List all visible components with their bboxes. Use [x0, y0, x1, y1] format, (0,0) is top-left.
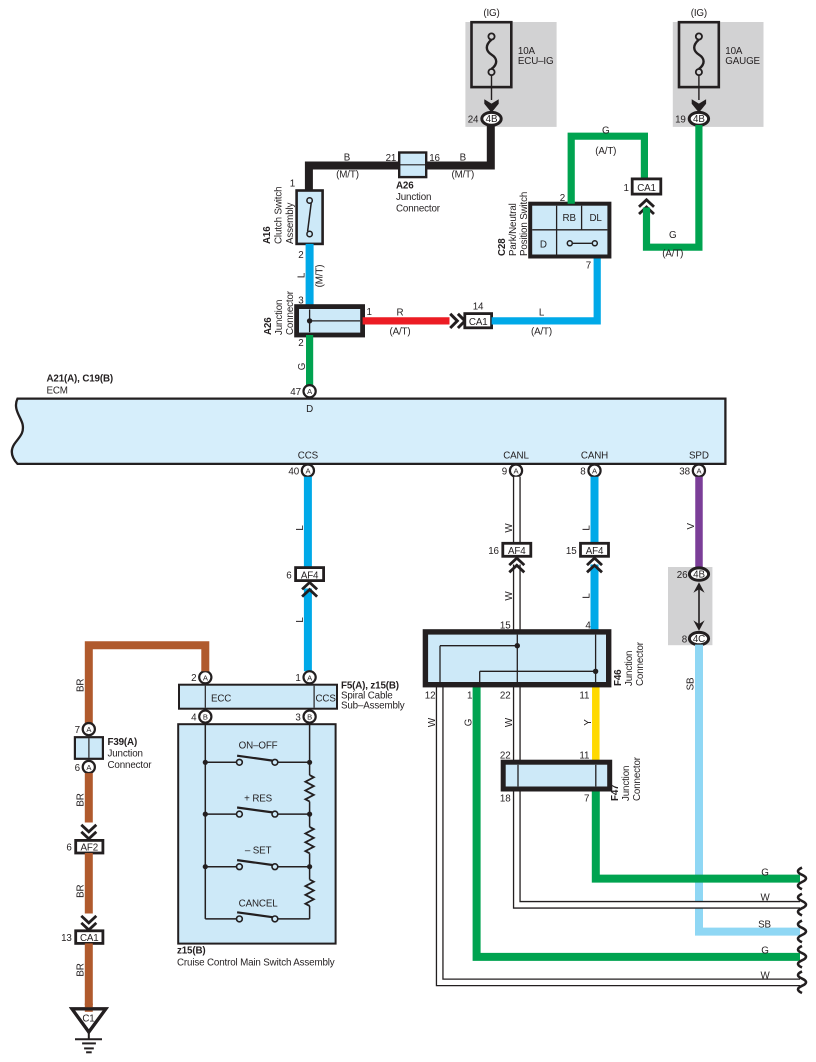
svg-text:A26: A26: [396, 181, 414, 192]
svg-text:4: 4: [191, 713, 197, 724]
svg-text:8: 8: [580, 466, 586, 477]
ground C1: [72, 1004, 106, 1053]
wire W white CANL from ECM pin 9 to F46 pin 15: [500, 477, 517, 632]
wire Y yellow from F46 pin 11 to F47 pin 11: [583, 685, 596, 763]
svg-text:A26: A26: [263, 317, 274, 335]
svg-text:L: L: [297, 272, 308, 278]
resistor R1: [305, 775, 313, 801]
brace end of wire SB: [798, 921, 806, 943]
svg-text:R: R: [397, 308, 404, 319]
pin 8 (A) of ECM: [580, 465, 600, 478]
svg-text:1: 1: [467, 691, 472, 702]
wire L (A/T) blue from CA1 to C28 pin 7: [492, 257, 598, 338]
svg-text:4B: 4B: [693, 569, 705, 580]
connector AF2 pin 6: [66, 840, 103, 853]
svg-text:CA1: CA1: [637, 183, 656, 194]
svg-text:W: W: [760, 971, 770, 982]
svg-text:Assembly: Assembly: [285, 202, 296, 244]
ECM A21(A) C19(B): [12, 374, 726, 464]
connector AF4 pin 15: [566, 543, 609, 572]
svg-text:B: B: [460, 153, 467, 164]
svg-text:Park/Neutral: Park/Neutral: [508, 203, 519, 256]
svg-text:3: 3: [295, 713, 301, 724]
svg-text:z15(B): z15(B): [177, 946, 206, 957]
svg-text:DL: DL: [589, 213, 602, 224]
svg-text:21: 21: [386, 153, 397, 164]
svg-text:26: 26: [677, 570, 688, 581]
pin 7 (A) of F39: [75, 723, 95, 736]
svg-text:(A/T): (A/T): [389, 327, 410, 338]
svg-text:D: D: [306, 404, 313, 415]
svg-text:F39(A): F39(A): [108, 737, 138, 748]
svg-text:(M/T): (M/T): [451, 169, 474, 180]
wire BR brown from F39 to AF2: [76, 773, 97, 839]
svg-text:AF4: AF4: [508, 546, 526, 557]
pin 38 (A) of ECM: [679, 465, 705, 478]
svg-text:G: G: [297, 363, 308, 370]
svg-text:SPD: SPD: [689, 451, 709, 462]
connector arrows into CA1: [450, 314, 465, 328]
svg-text:A16: A16: [262, 226, 273, 244]
wire L blue CCS from ECM pin 40 to spiral cable pin 1: [295, 477, 308, 672]
svg-text:BR: BR: [76, 679, 87, 692]
wire BR brown from AF2 to CA1: [76, 853, 97, 930]
svg-text:2: 2: [191, 673, 196, 684]
svg-text:V: V: [686, 522, 697, 529]
svg-text:CA1: CA1: [469, 317, 488, 328]
svg-text:L: L: [295, 525, 306, 531]
svg-text:ON–OFF: ON–OFF: [239, 740, 278, 751]
svg-text:G: G: [602, 126, 609, 137]
svg-text:2: 2: [298, 250, 303, 261]
svg-text:CANL: CANL: [503, 451, 529, 462]
svg-text:9: 9: [502, 466, 507, 477]
svg-text:12: 12: [425, 691, 436, 702]
svg-text:8: 8: [682, 635, 688, 646]
svg-text:ECU–IG: ECU–IG: [518, 56, 554, 67]
svg-text:AF2: AF2: [81, 842, 99, 853]
svg-text:B: B: [203, 713, 208, 722]
cruise control main switch assembly z15(B): [177, 724, 336, 968]
svg-text:Junction: Junction: [621, 766, 632, 801]
svg-text:Connector: Connector: [396, 204, 441, 215]
svg-text:A21(A), C19(B): A21(A), C19(B): [47, 374, 114, 385]
svg-text:CANH: CANH: [581, 451, 608, 462]
svg-text:Connector: Connector: [635, 641, 646, 686]
park/neutral position switch C28: [497, 192, 609, 257]
svg-text:RB: RB: [563, 213, 577, 224]
pin 9 (A) of ECM: [502, 465, 522, 478]
connector block background 4B-4C: [668, 567, 712, 645]
svg-text:6: 6: [66, 842, 72, 853]
arrow down into 4C: [693, 620, 704, 631]
svg-text:+ RES: + RES: [244, 793, 272, 804]
wire G (A/T) green from C28 pin 2 to CA1: [571, 126, 644, 204]
svg-text:CCS: CCS: [298, 451, 319, 462]
connector arrows below CA1: [639, 200, 654, 214]
svg-text:AF4: AF4: [586, 546, 604, 557]
connector AF4 pin 6: [286, 568, 323, 597]
svg-text:Clutch Switch: Clutch Switch: [274, 187, 285, 244]
svg-text:Position Switch: Position Switch: [519, 192, 530, 256]
svg-text:G: G: [464, 719, 475, 726]
svg-text:16: 16: [488, 546, 499, 557]
svg-text:ECM: ECM: [47, 386, 68, 397]
svg-text:BR: BR: [76, 963, 87, 976]
svg-text:15: 15: [566, 546, 577, 557]
right rail wire inside switch assembly: [309, 724, 311, 775]
svg-text:1: 1: [295, 673, 300, 684]
svg-text:6: 6: [75, 763, 81, 774]
svg-text:6: 6: [286, 570, 292, 581]
svg-text:Junction: Junction: [396, 192, 431, 203]
svg-text:AF4: AF4: [301, 570, 319, 581]
svg-text:ECC: ECC: [211, 694, 231, 705]
pin 8 connector 4C: [682, 632, 709, 645]
label W wire to right edge: [760, 893, 770, 904]
spiral cable sub-assembly F5(A) z15(B): [179, 681, 405, 712]
pin 1 (A) of spiral cable: [295, 671, 315, 684]
junction connector F47: [500, 751, 643, 805]
pin 3 (B) of spiral cable: [295, 711, 315, 724]
svg-text:F47: F47: [610, 784, 621, 801]
fuse block background (ECU-IG): [465, 22, 556, 127]
svg-text:F46: F46: [613, 669, 624, 686]
pin 24 connector 4B: [468, 112, 502, 125]
svg-text:1: 1: [290, 179, 295, 190]
svg-text:7: 7: [586, 261, 591, 272]
brace end of wire G: [798, 868, 806, 890]
svg-text:G: G: [669, 230, 676, 241]
wire V violet SPD from ECM pin 38 to 26-4B: [686, 477, 699, 569]
svg-text:(M/T): (M/T): [336, 169, 359, 180]
svg-text:L: L: [582, 593, 593, 599]
svg-text:G: G: [761, 945, 768, 956]
svg-text:Junction: Junction: [274, 300, 285, 335]
switch ON-OFF: [203, 740, 313, 765]
wire G green from F46 pin 1 to right edge: [464, 685, 800, 957]
wire L (M/T) blue from A16 to A26: [297, 244, 326, 307]
svg-text:L: L: [539, 308, 545, 319]
clutch switch assembly A16: [262, 179, 323, 245]
svg-text:– SET: – SET: [245, 846, 272, 857]
svg-text:Connector: Connector: [632, 756, 643, 801]
svg-text:SB: SB: [686, 677, 697, 690]
svg-text:W: W: [504, 591, 515, 601]
svg-text:(IG): (IG): [483, 8, 499, 19]
svg-text:7: 7: [75, 725, 80, 736]
svg-text:Connector: Connector: [285, 290, 296, 335]
svg-text:4B: 4B: [486, 114, 498, 125]
svg-text:Connector: Connector: [108, 760, 153, 771]
resistor R3: [305, 880, 313, 906]
svg-text:C28: C28: [497, 238, 508, 256]
svg-text:38: 38: [679, 466, 690, 477]
svg-text:22: 22: [500, 691, 511, 702]
svg-text:(A/T): (A/T): [531, 327, 552, 338]
connector AF4 pin 16: [488, 543, 531, 572]
svg-text:Y: Y: [583, 719, 594, 726]
wire BR brown from spiral cable pin 2 to F39: [76, 645, 206, 723]
label SB wire to right edge: [758, 919, 771, 930]
label G wire 2 to right edge: [761, 945, 768, 956]
pin 26 connector 4B: [677, 568, 709, 581]
brace end of wire G 2: [798, 946, 806, 968]
svg-text:11: 11: [579, 691, 589, 702]
brace end of wire W 2: [798, 971, 806, 993]
wire L blue CANH from ECM pin 8 to F46 pin 4: [582, 477, 595, 632]
svg-text:B: B: [344, 153, 351, 164]
svg-text:G: G: [761, 867, 768, 878]
svg-text:BR: BR: [76, 793, 87, 806]
wire W white from F46 pin 22 through F47 to right edge: [504, 685, 800, 905]
svg-text:19: 19: [675, 115, 686, 126]
fuse 10A GAUGE: [679, 22, 761, 112]
svg-text:7: 7: [584, 794, 589, 805]
left rail wire inside switch assembly: [204, 724, 206, 919]
svg-text:B: B: [307, 713, 312, 722]
wire G green from F47 pin 7 to right edge: [596, 789, 800, 879]
wire link 4B to 4C: [698, 589, 700, 624]
svg-text:(A/T): (A/T): [662, 249, 683, 260]
svg-text:L: L: [582, 525, 593, 531]
svg-text:C1: C1: [82, 1014, 94, 1025]
svg-text:40: 40: [288, 466, 299, 477]
svg-text:(M/T): (M/T): [314, 265, 325, 288]
junction connector A26 (lower): [263, 290, 372, 349]
pin 6 (A) of F39: [75, 761, 95, 774]
svg-text:14: 14: [473, 302, 484, 313]
svg-text:W: W: [760, 893, 770, 904]
wire G (A/T) green from CA1 to fuse 19-4B: [647, 125, 699, 260]
svg-text:Cruise Control Main Switch Ass: Cruise Control Main Switch Assembly: [177, 958, 335, 969]
wire G green from A26 pin 2 to ECM pin 47: [297, 335, 310, 385]
fuse 10A ECU-IG: [472, 22, 554, 112]
pin 40 (A) of ECM: [288, 465, 314, 478]
svg-text:Junction: Junction: [108, 749, 143, 760]
wire right rail: [309, 802, 311, 827]
svg-text:1: 1: [367, 307, 372, 318]
svg-text:SB: SB: [758, 919, 771, 930]
switch CANCEL: [205, 899, 309, 922]
svg-text:18: 18: [500, 794, 511, 805]
wire right rail: [309, 906, 311, 919]
wire W white from F46 pin 12 to right edge: [427, 685, 800, 983]
node (IG) left: [483, 8, 499, 19]
junction connector A26 (upper): [386, 153, 441, 215]
wire SB sky blue from 4C to right edge: [686, 645, 800, 932]
svg-text:4C: 4C: [693, 634, 705, 645]
svg-text:CA1: CA1: [80, 933, 99, 944]
pin 47 (A) of ECM: [290, 385, 315, 398]
svg-text:W: W: [504, 717, 515, 727]
svg-text:CCS: CCS: [315, 694, 336, 705]
svg-text:W: W: [427, 717, 438, 727]
connector CA1 pin 13: [61, 931, 103, 944]
resistor R2: [305, 827, 313, 853]
wire R (A/T) red from A26 to CA1: [363, 308, 450, 338]
svg-text:BR: BR: [76, 884, 87, 897]
connector CA1 pin 14: [465, 302, 492, 328]
svg-text:13: 13: [61, 933, 72, 944]
fuse block background (GAUGE): [673, 22, 764, 127]
wire BR brown from CA1 to ground C1: [76, 943, 89, 1005]
arrow up into 4B: [693, 582, 704, 593]
switch + RES: [203, 793, 313, 817]
label W wire 2 to right edge: [760, 971, 770, 982]
svg-text:CANCEL: CANCEL: [239, 899, 279, 910]
svg-text:(A/T): (A/T): [595, 146, 616, 157]
svg-text:4B: 4B: [693, 114, 705, 125]
junction connector F46: [425, 632, 646, 702]
svg-text:Sub–Assembly: Sub–Assembly: [341, 701, 405, 712]
svg-text:47: 47: [290, 387, 301, 398]
svg-text:GAUGE: GAUGE: [725, 56, 760, 67]
svg-text:1: 1: [623, 183, 628, 194]
switch - SET: [203, 846, 313, 870]
pin 2 (A) of spiral cable: [191, 671, 211, 684]
pin 4 (B) of spiral cable: [191, 711, 211, 724]
wire B (M/T) black from fuse 24-4B to A26 and A16: [309, 124, 491, 191]
wire right rail: [309, 853, 311, 879]
label G wire to right edge: [761, 867, 768, 878]
node (IG) right: [691, 8, 707, 19]
svg-text:W: W: [504, 523, 515, 533]
svg-text:(IG): (IG): [691, 8, 707, 19]
brace end of wire W: [798, 894, 806, 916]
svg-text:16: 16: [429, 153, 440, 164]
svg-text:L: L: [295, 617, 306, 623]
junction connector F39(A): [75, 737, 152, 771]
pin 19 connector 4B: [675, 112, 709, 125]
svg-text:24: 24: [468, 115, 479, 126]
svg-text:Junction: Junction: [624, 651, 635, 686]
svg-text:2: 2: [298, 338, 303, 349]
connector CA1 pin 1: [623, 179, 660, 194]
svg-text:D: D: [540, 239, 547, 250]
